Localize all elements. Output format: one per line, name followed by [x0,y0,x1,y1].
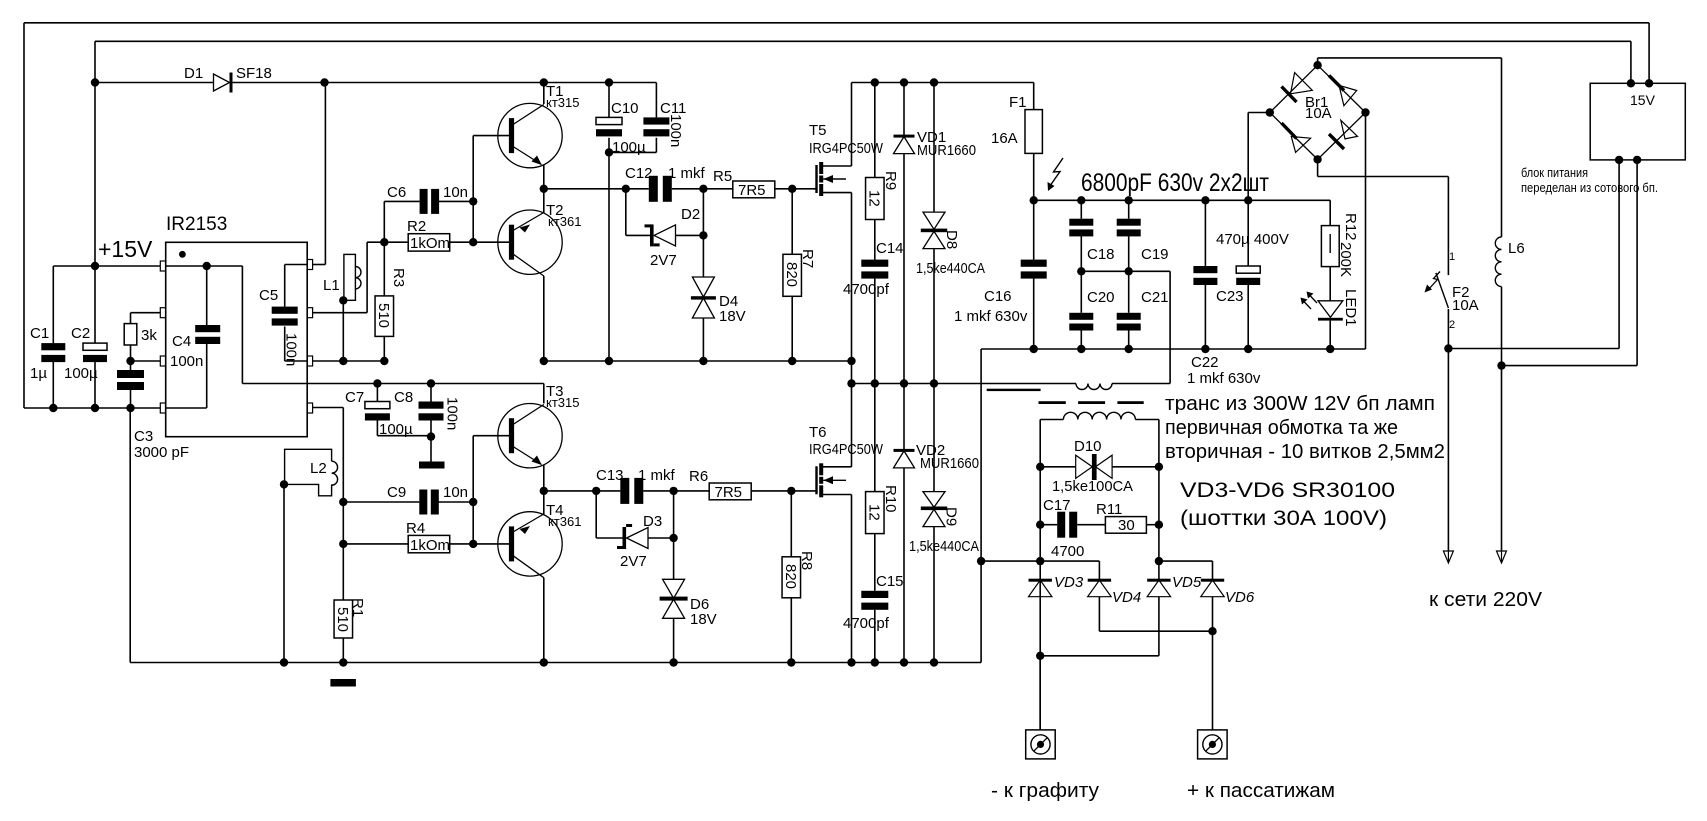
wire Br1 left out [1248,112,1270,114]
wire C5 top [284,265,286,307]
wire chip internal riser [241,266,243,384]
svg-text:C12: C12 [625,165,653,182]
svg-text:блок питания: блок питания [1521,165,1588,180]
svg-text:D8: D8 [943,230,960,249]
diode D1 SF18 [214,74,230,91]
wire T5 drain riser [851,83,853,167]
svg-text:L6: L6 [1508,240,1525,257]
transistor T2 kt361 [498,210,562,274]
svg-text:C6: C6 [387,184,406,201]
svg-text:кт361: кт361 [548,214,581,229]
IC right pin 8 [307,260,312,270]
wire C6 left [383,201,385,242]
svg-text:12: 12 [865,504,882,521]
bridge diode bottom-right [1329,134,1344,149]
IC right pin 6 [307,356,312,366]
IC left pin 1 [160,261,165,271]
capacitor C13 1mkf [620,478,629,504]
wire T6 drain riser [851,384,853,467]
diode D9 TVS [933,384,935,492]
svg-text:4700: 4700 [1051,543,1084,560]
mains arrow 2 [1497,551,1507,563]
IC left pin 2 [160,308,165,318]
wire caps bottom rail [981,348,1365,350]
wire pin5 riser [342,408,344,503]
wire R8 top [790,491,792,557]
wire D3 right [648,537,674,539]
svg-text:18V: 18V [690,611,717,628]
transistor T6 IRG4PC50W [815,466,817,494]
svg-text:1 mkf: 1 mkf [638,467,676,484]
wire 15V box top pin risers [1648,23,1650,84]
resistor R2 1kOm [384,241,408,243]
wire D3 branch left [595,491,597,538]
svg-text:2: 2 [1449,319,1455,331]
svg-text:C19: C19 [1141,246,1169,263]
wire T-base column upper [472,136,474,243]
wire L2 down to ground [283,484,285,662]
wire C15 bottom [874,610,876,663]
transistor T1 kt315 [498,103,562,167]
transistor T4 kt361 [498,512,562,576]
wire T2 emitter rise [543,189,545,213]
svg-text:820: 820 [782,564,799,589]
svg-text:R7: R7 [799,249,816,268]
svg-text:1 mkf 630v: 1 mkf 630v [954,308,1028,325]
wire R4 left [343,543,408,545]
capacitor C6 10n [420,189,428,214]
svg-text:4700pf: 4700pf [843,615,890,632]
capacitor C9 10n [419,490,427,515]
svg-text:10n: 10n [443,484,468,501]
wire chip internal to rail B [242,383,307,385]
svg-text:+15V: +15V [98,236,153,262]
wire VD4 out row [1099,630,1212,632]
resistor R12 200K [1329,200,1331,225]
svg-text:VD3: VD3 [1054,574,1084,591]
wire pin6 row [313,360,385,362]
svg-text:C1: C1 [30,325,49,342]
svg-text:C13: C13 [596,467,624,484]
svg-text:2V7: 2V7 [650,252,677,269]
wire C9 left [343,501,419,503]
svg-text:VD3-VD6 SR30100: VD3-VD6 SR30100 [1180,479,1395,502]
wire 3k to C3 [130,345,132,370]
svg-text:1 mkf 630v: 1 mkf 630v [1187,370,1261,387]
svg-text:R12: R12 [1342,213,1359,241]
svg-text:R10: R10 [882,485,899,513]
capacitor C17 4700 [1040,524,1057,526]
resistor R10 12 [874,384,876,492]
wire T5 top rail [852,82,1034,84]
capacitor C14 4700pf [861,260,888,267]
capacitor C8 100n [427,379,435,387]
wire C11 loop top [655,83,657,118]
svg-text:C16: C16 [984,288,1012,305]
wire second top rail [95,40,1631,42]
svg-text:IRG4PC50W: IRG4PC50W [809,140,884,157]
wire T2 base [473,241,509,243]
svg-text:R3: R3 [390,268,407,287]
wire secondary right leg upper [1158,420,1160,580]
diode D4 TVS 18V [692,277,714,297]
svg-text:C23: C23 [1216,288,1244,305]
wire +15V rail [53,265,160,267]
svg-text:D1: D1 [184,65,203,82]
svg-text:транс из 300W 12V бп ламп: транс из 300W 12V бп ламп [1165,393,1435,415]
wire bottom-left row [24,407,160,409]
svg-text:C10: C10 [611,100,639,117]
bridge diode top-left [1282,87,1297,103]
wire C4 bottom [206,343,208,408]
svg-text:R5: R5 [713,168,732,185]
wire pin3 stub [131,360,161,362]
svg-text:200K: 200K [1337,242,1354,277]
svg-text:R9: R9 [882,171,899,190]
resistor R7 820 [791,189,793,255]
svg-text:к сети 220V: к сети 220V [1429,589,1543,611]
wire D4 top [702,235,704,277]
switch F2 blade [1436,273,1449,308]
svg-text:IRG4PC50W: IRG4PC50W [809,441,884,458]
svg-text:510: 510 [334,607,351,632]
wire D9 bottom [933,527,935,663]
svg-text:C17: C17 [1043,497,1071,514]
terminal minus graphite [1026,730,1056,759]
svg-text:1: 1 [1449,251,1455,263]
wire chip vcc internal [166,265,243,267]
wire to C12 [626,188,649,190]
svg-text:R11: R11 [1096,501,1122,518]
svg-text:6800pF 630v 2х2шт: 6800pF 630v 2х2шт [1081,169,1269,197]
svg-text:C8: C8 [394,389,413,406]
wire D6 bottom [673,618,675,662]
wire T6 source drop [851,495,853,663]
wire rail A [544,360,852,362]
wire T2 collector drop [543,276,545,361]
wire Br1 top out [1317,58,1319,65]
svg-text:+ к пассатижам: + к пассатижам [1187,780,1335,802]
wire C11 bottom [655,138,657,153]
capacitor C18 [1080,200,1082,218]
svg-text:3k: 3k [141,327,157,344]
capacitor C20 [1080,271,1082,313]
IC right pin 5 [307,403,312,413]
wire top border rail [24,22,1649,24]
svg-text:100n: 100n [444,397,461,430]
svg-text:C2: C2 [71,325,90,342]
svg-text:100n: 100n [283,333,300,366]
wire ground right riser [980,349,982,663]
capacitor C16 1mkf630v [1033,200,1035,259]
bridge diode bottom-left [1282,123,1297,139]
capacitor C10 100u electrolytic [596,117,622,124]
wire VD3 top row [1040,560,1099,562]
wire cap mid row [1081,270,1170,272]
capacitor C3 3000pF [117,370,144,378]
svg-text:16A: 16A [991,130,1018,147]
wire C8 bottom [430,420,432,461]
svg-text:1kOm: 1kOm [410,537,450,554]
wire T1 collector riser [543,83,545,105]
svg-text:10A: 10A [1452,297,1479,314]
wire F2 drop to mains [1447,349,1449,552]
capacitor C4 100n [195,325,220,332]
diode D6 TVS 18V [663,579,685,598]
block 15V supply [1590,83,1685,160]
wire VD3 to terminal [1039,656,1041,730]
transistor T3 kt315 [498,404,562,468]
transformer core solid line [987,389,1041,391]
svg-text:кт315: кт315 [546,95,579,110]
diode VD4 [1098,561,1100,580]
capacitor C12 1mkf [649,176,658,202]
wire Br1 right out [1365,113,1367,350]
svg-text:кт361: кт361 [548,514,581,529]
wire C6 right [439,200,474,202]
svg-text:переделан из сотового бп.: переделан из сотового бп. [1521,180,1658,195]
capacitor C19 [1128,200,1130,218]
wire secondary left leg [1039,420,1041,730]
wire C2 bottom [94,362,96,408]
wire VB riser [313,264,326,266]
15V box pins [1627,79,1635,87]
wire mid row riser [1169,271,1171,383]
capacitor C11 100n [643,117,669,124]
resistor R11 30 [1077,524,1105,526]
svg-text:VD5: VD5 [1172,574,1202,591]
wire T3 emitter drop [543,465,545,491]
wire R4 right [450,543,474,545]
resistor R5 7R5 [703,188,732,190]
IC right pin 7 [307,308,312,318]
svg-text:D10: D10 [1074,438,1102,455]
diode D10 TVS 1.5ke100CA [1040,466,1076,468]
wire VD5 top row [1159,560,1213,562]
svg-text:7R5: 7R5 [738,182,766,199]
svg-text:1,5ke100CA: 1,5ke100CA [1052,478,1133,495]
inductor L6 [1495,237,1501,287]
svg-text:820: 820 [783,262,800,287]
svg-text:15V: 15V [1630,92,1656,108]
resistor R6 7R5 [674,490,710,492]
wire C10 bottom [608,138,610,153]
wire T3 base [473,435,509,437]
inductor L2 [285,449,332,496]
svg-text:C21: C21 [1141,289,1169,306]
wire D1 cathode rail [231,82,656,84]
svg-text:F1: F1 [1009,94,1027,111]
resistor R9 12 [874,83,876,178]
svg-text:100µ: 100µ [64,365,98,382]
svg-text:12: 12 [865,190,882,207]
svg-text:2V7: 2V7 [620,553,647,570]
wire R6 right [751,490,816,492]
wire C10C11 drop to rail A [608,152,610,361]
svg-text:R2: R2 [407,218,426,235]
svg-text:R6: R6 [689,468,708,485]
svg-text:30: 30 [1118,517,1135,534]
wire D4 bottom [702,318,704,361]
svg-text:IR2153: IR2153 [166,214,227,235]
wire VD6 to terminal [1212,631,1214,730]
wire snubber return [981,560,1040,562]
wire to C13 [596,490,620,492]
svg-text:18V: 18V [719,308,746,325]
bridge Br1 10A diamond [1270,65,1318,112]
svg-text:T5: T5 [809,122,827,139]
wire D8 bottom [933,249,935,384]
junction D9 ground [930,658,938,666]
ground bar R1 [330,679,356,687]
wire F2 row to 15V [1448,348,1619,350]
IC U1 IR2153 body [166,242,308,436]
svg-text:LED1: LED1 [1342,289,1359,327]
wire Br1 bottom out [1317,159,1319,176]
resistor R3 510 [383,242,385,296]
wire D1 anode [95,82,214,84]
svg-text:VD6: VD6 [1225,589,1255,606]
diode D3 zener 2V7 [623,527,627,549]
transistor T5 IRG4PC50W [815,165,817,193]
wire T4 emitter rise [543,491,545,514]
diode VD2 MUR1660 [903,384,905,451]
wire mid rail T3T4 [544,490,596,492]
bridge diode top-right [1329,76,1344,91]
svg-text:4700pf: 4700pf [843,281,890,298]
wire R11 right [1146,524,1159,526]
svg-text:D2: D2 [681,206,700,223]
wire pin5 row [313,407,344,409]
wire ground rail [130,662,981,664]
wire D6 top [673,538,675,579]
wire F2 bottom [1447,309,1449,349]
wire C3 bottom [130,390,132,408]
svg-text:T6: T6 [809,424,827,441]
diode LED1 [1318,301,1343,318]
svg-text:1,5ke440CA: 1,5ke440CA [916,260,985,277]
svg-text:10n: 10n [443,184,468,201]
wire L1 down [342,300,344,361]
wire +15V feed vertical [94,41,96,266]
svg-text:C9: C9 [387,484,406,501]
svg-text:VD4: VD4 [1112,589,1141,606]
wire C12 right [672,188,704,190]
svg-text:R8: R8 [798,551,815,570]
wire T4 base [473,543,509,545]
wire rail B chip to T3 [307,383,544,385]
svg-text:C20: C20 [1087,289,1115,306]
wire D2 right [676,234,704,236]
svg-text:вторичная - 10 витков 2,5мм2: вторичная - 10 витков 2,5мм2 [1165,441,1445,463]
wire C13 right [643,490,673,492]
capacitor C23 470u400V [1247,200,1249,266]
wire 15V bottom pin risers [1618,160,1620,349]
wire pin5 column lower [342,502,344,600]
svg-text:1 mkf: 1 mkf [668,165,706,182]
wire VD1 bottom [903,154,905,384]
resistor R 3k [130,313,132,324]
svg-text:C5: C5 [259,287,278,304]
wire T4 collector drop [543,578,545,663]
transformer secondary [1040,419,1063,421]
svg-text:470µ 400V: 470µ 400V [1216,231,1289,248]
IC left pin 3 [160,356,165,366]
svg-text:100µ: 100µ [612,139,646,156]
svg-text:510: 510 [375,303,392,328]
svg-text:кт315: кт315 [546,395,579,410]
capacitor C15 4700pf [861,591,888,598]
wire R5 right [775,188,816,190]
transformer core dashed line [1039,401,1066,404]
wire T1 base [473,135,509,137]
wire L6 bottom [1501,287,1503,366]
svg-text:L2: L2 [310,460,327,477]
wire HO pin stub [313,312,368,314]
svg-text:C22: C22 [1191,354,1219,371]
wire C10 column top [608,83,610,118]
resistor R1 510 [334,600,353,638]
inductor L1 [344,254,356,300]
wire C5 bottom [284,327,286,362]
wire D2 branch left [625,189,627,236]
wire HO top row [367,241,384,243]
IC pin1 marker dot [179,251,186,258]
capacitor C22 1mkf630v [1204,200,1206,266]
svg-text:C4: C4 [172,333,191,350]
wire VD2 bottom [903,468,905,663]
wire C4 top [206,266,208,325]
svg-text:100n: 100n [667,114,684,147]
svg-text:D3: D3 [643,513,662,530]
svg-text:3000 pF: 3000 pF [134,444,189,461]
wire HO riser [366,242,368,313]
wire C3 column to ground rail [129,408,131,663]
svg-text:C7: C7 [345,389,364,406]
diode D8 TVS [933,83,935,213]
diode VD5 [1147,579,1170,582]
capacitor C1 1u [52,266,54,343]
wire F2 top [1447,177,1449,276]
svg-text:7R5: 7R5 [715,484,743,501]
capacitor C5 100n [272,307,298,314]
wire L6 top [1501,58,1503,237]
svg-text:SF18: SF18 [236,65,272,82]
wire L6 row to 15V [1502,365,1638,367]
fuse F1 16A [1033,83,1035,110]
wire left border [23,23,25,408]
capacitor C7 100u electrolytic [373,379,381,387]
transformer primary [1076,384,1112,390]
diode VD1 MUR1660 [903,83,905,137]
wire mid rail T1T2 [544,188,626,190]
svg-text:D9: D9 [943,507,960,526]
svg-text:C18: C18 [1087,246,1115,263]
svg-text:первичная обмотка та же: первичная обмотка та же [1165,417,1398,439]
wire T1 emitter drop [543,165,545,189]
resistor R4 1kOm [408,535,450,552]
svg-text:L1: L1 [323,277,340,294]
wire rail C left [852,383,1077,385]
wire T-base column lower [472,436,474,544]
svg-text:10A: 10A [1305,105,1332,122]
svg-text:- к графиту: - к графиту [991,780,1099,802]
capacitor C21 [1128,271,1130,313]
wire HV rail [1034,199,1331,201]
svg-text:1,5ke440CA: 1,5ke440CA [909,538,979,555]
svg-text:C3: C3 [134,428,153,445]
lightning arrow [1049,158,1064,188]
